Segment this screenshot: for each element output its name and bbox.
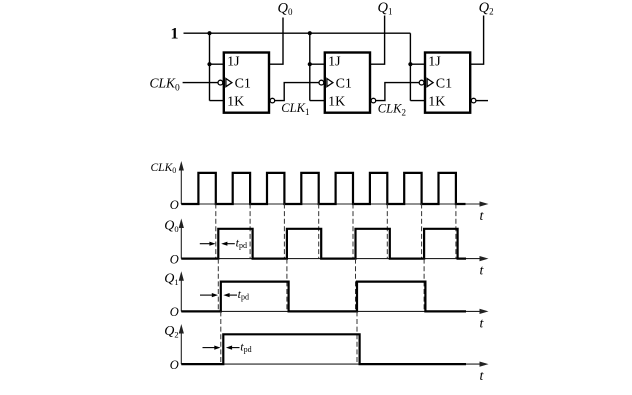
svg-text:1J: 1J — [428, 55, 441, 70]
wire: FF2 J/K feed vertical — [310, 33, 325, 100]
flip-flop U3 body — [425, 53, 470, 113]
FF1 clock inversion bubble — [218, 80, 223, 85]
U3 Q-bar inversion bubble — [471, 98, 476, 103]
U1 Q-bar inversion bubble — [270, 98, 275, 103]
svg-text:Q0: Q0 — [164, 219, 178, 235]
tpd annotation arrows in row Q2 — [203, 346, 240, 350]
timing row Q0: x axis — [181, 256, 488, 261]
U1 dynamic clock triangle — [226, 79, 232, 87]
svg-text:Q1: Q1 — [164, 271, 178, 287]
timing row CLK0: y axis — [179, 161, 184, 204]
junction dot on rail at FF1 feed — [207, 31, 211, 35]
tpd annotation arrows in row Q1 — [200, 293, 237, 297]
dashed guides at CLK0 falling edges — [216, 204, 456, 259]
svg-text:t: t — [480, 369, 485, 384]
svg-text:1: 1 — [171, 26, 179, 43]
svg-text:C1: C1 — [436, 77, 452, 92]
U2 dynamic clock triangle — [327, 79, 333, 87]
svg-text:1K: 1K — [428, 95, 445, 110]
wire: FF3 J/K feed vertical — [410, 33, 425, 100]
svg-text:tpd: tpd — [236, 235, 247, 250]
timing row Q2: waveform — [181, 334, 466, 364]
svg-text:1J: 1J — [227, 55, 240, 70]
svg-text:Q2: Q2 — [479, 0, 494, 17]
junction dot at FF1 1J input — [207, 62, 211, 66]
svg-text:tpd: tpd — [238, 287, 249, 302]
timing row Q1: waveform — [181, 282, 466, 312]
U2 Q-bar inversion bubble — [371, 98, 376, 103]
svg-text:t: t — [480, 209, 485, 224]
dashed guides at Q1 rising edges — [221, 311, 357, 364]
U3 dynamic clock triangle — [427, 79, 433, 87]
svg-text:tpd: tpd — [240, 340, 251, 355]
svg-text:O: O — [170, 305, 179, 319]
timing row Q1: y axis — [179, 271, 184, 311]
timing row Q0: waveform — [181, 229, 466, 259]
wire: U1 Q-bar to FF2 clock — [275, 83, 319, 101]
tpd annotation arrows in row Q0 — [200, 242, 235, 246]
FF2 clock inversion bubble — [319, 80, 324, 85]
svg-text:Q2: Q2 — [164, 324, 178, 340]
wire: U2 Q output to Q1 — [370, 16, 385, 65]
flip-flop U1 body — [224, 53, 269, 113]
dashed guides at Q0 rising edges — [218, 259, 424, 312]
svg-text:O: O — [170, 198, 179, 212]
timing row Q1: x axis — [181, 309, 488, 314]
svg-text:CLK0: CLK0 — [151, 162, 177, 175]
svg-text:CLK0: CLK0 — [150, 75, 181, 93]
wire: U3 Q-bar open stub — [476, 100, 488, 102]
wire: FF1 J/K feed vertical — [210, 33, 224, 100]
svg-text:1K: 1K — [328, 95, 345, 110]
svg-text:Q1: Q1 — [378, 0, 393, 17]
svg-text:C1: C1 — [235, 77, 251, 92]
junction dot at FF3 1J input — [408, 62, 412, 66]
timing row Q2: y axis — [179, 324, 184, 364]
FF3 clock inversion bubble — [419, 80, 424, 85]
timing row Q2: x axis — [181, 362, 488, 367]
wire: U3 Q output to Q2 — [470, 16, 483, 65]
junction dot on rail at FF2 feed — [308, 31, 312, 35]
wire: U1 Q output to Q0 — [269, 18, 283, 65]
svg-text:1J: 1J — [328, 55, 341, 70]
timing row CLK0: clock waveform — [181, 173, 465, 204]
flip-flop U2 body — [325, 53, 370, 113]
junction dot at FF2 1J input — [308, 62, 312, 66]
timing row Q0: y axis — [179, 219, 184, 259]
svg-text:t: t — [480, 264, 485, 279]
svg-text:CLK1: CLK1 — [281, 101, 309, 117]
wire: U2 Q-bar to FF3 clock — [376, 83, 419, 101]
wire: CLK0 input — [183, 82, 218, 84]
svg-text:Q0: Q0 — [278, 1, 293, 18]
svg-text:O: O — [170, 358, 179, 372]
svg-text:C1: C1 — [336, 77, 352, 92]
svg-text:1K: 1K — [227, 95, 244, 110]
svg-text:O: O — [170, 252, 179, 266]
svg-text:CLK2: CLK2 — [378, 102, 406, 118]
wire: logic-1 rail — [184, 32, 411, 34]
svg-text:t: t — [480, 316, 485, 331]
timing row CLK0: x axis — [181, 201, 488, 206]
